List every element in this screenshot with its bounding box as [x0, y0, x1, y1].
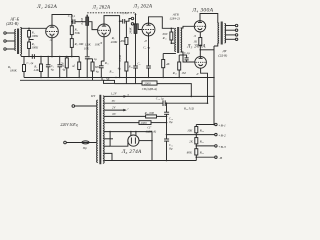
- node: [200, 49, 202, 51]
- wire to jack: [125, 19, 132, 22]
- wire: [104, 153, 112, 160]
- wire -B: [196, 156, 214, 158]
- jack terminal b: [131, 23, 133, 25]
- wire V3 anode to T2: [149, 17, 175, 29]
- filament wire 1: [104, 95, 214, 97]
- wire HV stub b: [104, 145, 110, 147]
- potentiometer P1: [86, 17, 89, 25]
- input terminal 1: [4, 32, 6, 34]
- transformer T2 core: [177, 27, 179, 53]
- filament tap 3 arrow: [104, 109, 124, 111]
- svg-text:+В-3: +В-3: [218, 145, 226, 149]
- terminal +B3: [215, 145, 217, 147]
- mains terminal 2: [64, 141, 67, 144]
- svg-text:(2Б4-2): (2Б4-2): [170, 16, 180, 20]
- wire HV top: [104, 131, 152, 133]
- wire V1 cathode: [51, 36, 53, 57]
- svg-text:R₂₆ 51Ω: R₂₆ 51Ω: [183, 106, 195, 110]
- svg-text:Л₂ 262А: Л₂ 262А: [92, 6, 111, 11]
- wire: [6, 40, 14, 42]
- output tap wire 3: [226, 34, 236, 36]
- svg-text:+В-2: +В-2: [218, 134, 226, 138]
- output terminal 2: [235, 29, 237, 31]
- bleeder chain: [195, 125, 197, 127]
- resistor R3: [23, 65, 26, 72]
- wire secondary top to V1 grid: [20, 27, 46, 30]
- wire T3 primary bottom: [214, 43, 218, 46]
- wire: [66, 142, 96, 144]
- resistor R12: [125, 62, 128, 71]
- wire +B2: [167, 134, 215, 136]
- wire V4 anode to T3: [200, 14, 218, 24]
- svg-text:100К: 100К: [31, 34, 39, 38]
- wiper arrow P2: [135, 13, 137, 24]
- wire T2 secondary top to V4 grid: [181, 26, 195, 28]
- input terminal 3: [4, 48, 6, 50]
- tube V4 300A: [194, 21, 205, 32]
- wire grid V2: [89, 22, 98, 30]
- potentiometer P2: [134, 24, 137, 34]
- output tap wire 1: [226, 25, 236, 27]
- terminal -B: [215, 156, 217, 158]
- capacitor C13: [164, 111, 169, 113]
- resistor R9 grid leak: [119, 21, 121, 77]
- svg-text:180К: 180К: [10, 68, 18, 72]
- wire secondary bottom: [20, 55, 79, 57]
- resistor R17: [163, 53, 176, 55]
- tube V3 262A: [142, 23, 155, 36]
- transformer T2 primary winding: [175, 28, 176, 51]
- wire V2 anode to top: [104, 16, 120, 24]
- mains terminal 1: [72, 105, 75, 108]
- svg-text:Л₅ 300А: Л₅ 300А: [186, 44, 206, 50]
- svg-text:С₉: С₉: [137, 62, 140, 66]
- svg-text:Пр: Пр: [82, 146, 87, 150]
- svg-text:(2ДВ-А): (2ДВ-А): [146, 130, 156, 134]
- capacitor C12: [104, 102, 163, 104]
- resistor R1: [28, 31, 31, 38]
- wiper arrow P1: [86, 15, 88, 17]
- tube V6 274A rectifier: [128, 135, 139, 146]
- svg-text:1М: 1М: [181, 71, 186, 75]
- wire V6 output: [139, 140, 152, 142]
- svg-text:R₂₄: R₂₄: [199, 140, 204, 144]
- svg-text:+В-1: +В-1: [218, 123, 226, 127]
- svg-text:240К: 240К: [128, 27, 132, 35]
- wire: [71, 35, 73, 39]
- svg-text:Л₄ 300А: Л₄ 300А: [191, 7, 213, 13]
- svg-text:2000: 2000: [144, 82, 151, 86]
- transformer T1 core: [17, 29, 19, 55]
- wire P2 bottom: [135, 34, 137, 67]
- resistor R7: [92, 59, 94, 62]
- svg-text:4μ: 4μ: [51, 68, 55, 72]
- transformer PT secondary winding: [103, 96, 104, 164]
- svg-text:R₁₈: R₁₈: [172, 71, 177, 75]
- output terminal 4: [235, 38, 237, 40]
- capacitor C11: [183, 54, 187, 56]
- resistor R7a: [66, 57, 68, 58]
- svg-text:СВ (2ДВ-А): СВ (2ДВ-А): [142, 87, 157, 91]
- capacitor C9: [133, 65, 138, 67]
- resistor 2000 box 2: [104, 122, 139, 124]
- resistor R23: [195, 127, 198, 133]
- ganged dashed link: [87, 12, 135, 14]
- svg-text:R₁₂: R₁₂: [128, 64, 133, 68]
- resistor R16: [104, 80, 115, 83]
- wire V6 anode leads: [130, 132, 132, 136]
- wire: [6, 32, 14, 34]
- wire: [75, 105, 97, 107]
- resistor R10: [125, 21, 127, 37]
- resistor R14: [170, 28, 172, 32]
- ground rail 1: [24, 77, 214, 79]
- wire HV stub a: [104, 138, 113, 140]
- output terminal 3: [235, 34, 237, 36]
- wire V1 anode to top: [52, 15, 72, 26]
- svg-text:R₂₂ 600: R₂₂ 600: [144, 111, 155, 115]
- svg-text:АГ-Б: АГ-Б: [9, 17, 19, 22]
- wire V2 cathode: [101, 35, 104, 61]
- rail A vertical: [213, 46, 215, 125]
- transformer T3 secondary winding: [225, 24, 226, 43]
- svg-text:100К: 100К: [31, 46, 39, 50]
- node R1 top: [28, 28, 30, 30]
- capacitor C6: [85, 56, 90, 58]
- svg-text:R₁₄: R₁₄: [162, 36, 167, 40]
- svg-text:R₂₃: R₂₃: [199, 128, 204, 132]
- wire anode junction to rail A: [200, 49, 214, 51]
- resistor R4: [40, 64, 43, 72]
- wire: [104, 115, 145, 117]
- output terminal 1: [235, 24, 237, 26]
- svg-text:4μ: 4μ: [96, 69, 100, 73]
- wire T2 secondary bottom to V5 grid: [181, 52, 195, 62]
- resistor R24: [195, 138, 198, 144]
- tube V5 300A: [195, 57, 207, 69]
- wire: [6, 48, 14, 50]
- svg-text:С₆ 4μ: С₆ 4μ: [143, 46, 150, 50]
- wire to potentiometer P1: [75, 21, 86, 23]
- wire: [28, 37, 30, 42]
- wire: [28, 49, 30, 57]
- svg-text:С₆1μ: С₆1μ: [184, 51, 191, 55]
- capacitor C14: [164, 138, 169, 140]
- capacitor C1: [31, 54, 33, 59]
- resistor R25: [195, 149, 198, 155]
- resistor R6: [70, 39, 73, 48]
- svg-text:4μ: 4μ: [62, 68, 66, 72]
- node: [119, 20, 121, 22]
- svg-text:8μ: 8μ: [169, 120, 173, 124]
- svg-text:(2Б1-В): (2Б1-В): [6, 22, 19, 26]
- capacitor C8: [100, 61, 102, 66]
- svg-text:R₁₃: R₁₃: [109, 70, 114, 74]
- wire V5 cathode: [201, 68, 208, 103]
- tube V2 262A: [98, 24, 111, 37]
- output tap wire 2: [226, 29, 236, 31]
- resistor R2: [28, 42, 31, 49]
- resistor 2000 box 1: [142, 81, 157, 85]
- svg-text:1μ: 1μ: [94, 57, 98, 61]
- wire: [28, 28, 30, 30]
- wire: [23, 57, 25, 65]
- svg-text:400К: 400К: [111, 40, 119, 44]
- wire: [115, 83, 143, 85]
- wire bottom rail: [104, 160, 196, 162]
- wire grid V3: [134, 24, 143, 30]
- fuse Pr: [82, 141, 89, 144]
- input terminal 2: [4, 40, 6, 42]
- transformer PT core: [99, 95, 101, 164]
- transformer T2 secondary winding: [181, 28, 182, 52]
- svg-text:R₆ 10К: R₆ 10К: [74, 42, 85, 46]
- wire: [71, 47, 73, 56]
- resistor R19 cathode: [199, 32, 201, 38]
- capacitor C3: [47, 57, 49, 65]
- svg-text:Л₆ 274А: Л₆ 274А: [121, 149, 142, 155]
- transformer PT primary winding: [97, 100, 98, 162]
- terminal +B1: [215, 123, 217, 125]
- transformer T3 core: [220, 22, 222, 45]
- capacitor C4: [59, 57, 61, 65]
- svg-text:R₂₅: R₂₅: [199, 151, 204, 155]
- resistor R5: [70, 26, 73, 35]
- svg-text:R₈: R₈: [71, 64, 75, 68]
- junction dots rail: [28, 56, 29, 57]
- wire +B1: [196, 124, 214, 126]
- resistor R8: [78, 57, 80, 63]
- wire rectifier right: [151, 132, 153, 161]
- ground rail 2: [20, 79, 104, 81]
- wire: [157, 84, 191, 97]
- wire center tap stub: [29, 39, 34, 41]
- wire: [40, 72, 42, 78]
- output tap wire 4: [226, 38, 236, 40]
- wire stub: [87, 58, 92, 60]
- svg-text:(2Д-В): (2Д-В): [218, 54, 227, 58]
- transformer T1 secondary winding: [20, 28, 21, 55]
- wire: [40, 57, 42, 65]
- wire: [23, 72, 25, 78]
- transformer T3 primary winding: [218, 23, 219, 43]
- svg-text:220V 50Гц: 220V 50Гц: [60, 123, 77, 127]
- svg-text:Л₃ 262А: Л₃ 262А: [133, 4, 153, 10]
- filter vertical: [166, 103, 168, 112]
- svg-text:С₁₂ 1μ: С₁₂ 1μ: [156, 97, 164, 101]
- capacitor C10: [146, 65, 151, 67]
- terminal +B2: [215, 133, 217, 135]
- wire: [110, 132, 128, 147]
- svg-text:Л₁ 262А: Л₁ 262А: [36, 4, 57, 10]
- resistor R22 600: [146, 115, 157, 118]
- wire +B3: [196, 145, 214, 147]
- svg-text:R₁₁: R₁₁: [104, 61, 109, 65]
- jack terminal a: [131, 17, 133, 19]
- svg-text:2000: 2000: [141, 121, 148, 125]
- node: [171, 28, 173, 30]
- wire P1 bottom: [86, 25, 88, 56]
- node coupling: [71, 21, 73, 23]
- wire V3 cathode: [148, 34, 150, 66]
- resistor R18: [179, 54, 183, 56]
- transformer T1 primary winding: [15, 29, 16, 50]
- tube V1 262A: [46, 25, 59, 38]
- svg-text:8μ: 8μ: [169, 147, 173, 151]
- svg-text:С₁ 1μ: С₁ 1μ: [27, 61, 34, 65]
